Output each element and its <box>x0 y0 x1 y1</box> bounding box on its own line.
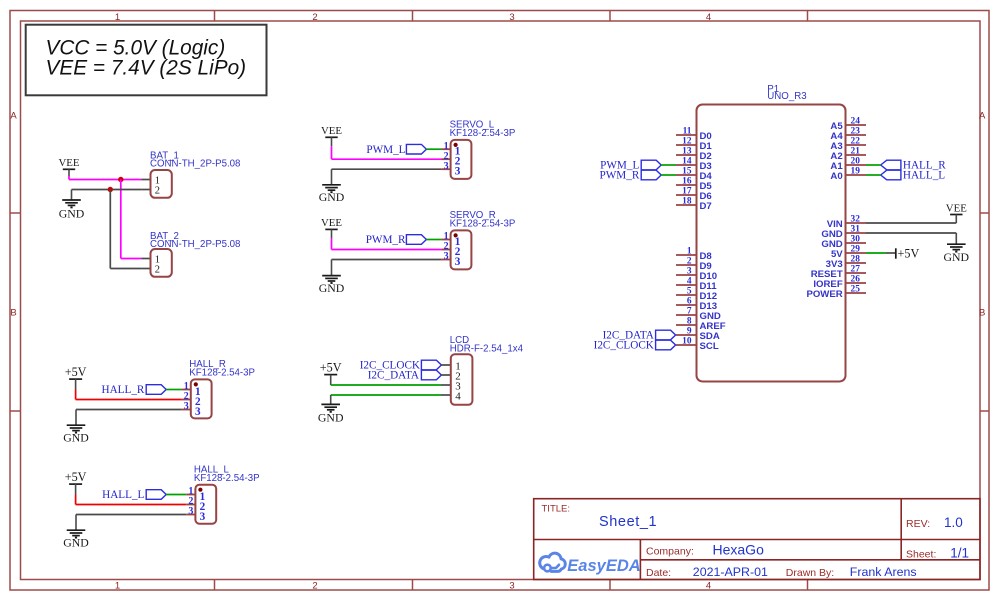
svg-text:GND: GND <box>319 190 345 204</box>
SERVO_R pin numbers <box>444 231 461 268</box>
svg-text:Drawn By:: Drawn By: <box>786 567 834 579</box>
svg-text:24: 24 <box>851 117 861 127</box>
svg-text:1: 1 <box>115 580 120 591</box>
svg-text:12: 12 <box>682 137 692 147</box>
svg-text:D7: D7 <box>700 201 712 212</box>
svg-text:3: 3 <box>455 256 461 268</box>
svg-text:3: 3 <box>200 511 206 523</box>
svg-text:9: 9 <box>687 327 692 337</box>
svg-text:+5V: +5V <box>320 360 342 374</box>
net label I2C_DATA <box>368 370 442 382</box>
svg-text:1/1: 1/1 <box>950 546 969 561</box>
connector BAT_1 CONN-TH_2P-P5.08 <box>141 170 171 198</box>
wire net VEE to BAT_2 pin 1 <box>120 180 122 259</box>
SERVO_L pin numbers <box>444 141 461 178</box>
wire net +5V to HALL_R pin 2 <box>75 390 77 400</box>
svg-text:I2C_CLOCK: I2C_CLOCK <box>594 340 654 352</box>
svg-text:UNO_R3: UNO_R3 <box>767 91 806 102</box>
ic P1 UNO_R3 body <box>697 105 846 382</box>
VEE power flag (battery) <box>59 157 80 169</box>
svg-text:+5V: +5V <box>65 470 87 484</box>
svg-text:3: 3 <box>455 166 461 178</box>
ground (P1 GND) <box>944 233 970 264</box>
wire net GND to HALL_L pin 3 <box>76 514 186 516</box>
ground (LCD) <box>318 395 344 425</box>
svg-text:1: 1 <box>687 247 692 257</box>
svg-text:26: 26 <box>851 275 861 285</box>
P1 left pins D0-D7 <box>676 135 697 205</box>
wire net +5V to P1 pin 29 <box>866 252 886 254</box>
wire net GND to LCD pin 4 <box>331 394 441 396</box>
svg-text:KF128-2.54-3P: KF128-2.54-3P <box>189 368 255 379</box>
svg-text:2: 2 <box>155 186 160 197</box>
svg-text:VEE: VEE <box>946 202 967 214</box>
svg-text:29: 29 <box>851 245 861 255</box>
note: supply voltage annotations <box>26 25 267 96</box>
svg-text:KF128-2.54-3P: KF128-2.54-3P <box>450 128 516 139</box>
svg-text:2: 2 <box>312 12 317 23</box>
wire net GND to BAT_2 pin 2 <box>109 190 111 269</box>
P1 left pin numbers 11-18 <box>682 127 692 207</box>
ground (HALL_R) <box>63 410 89 445</box>
wire net PWM_R to P1 pin 15 <box>661 174 676 176</box>
svg-text:GND: GND <box>59 207 85 221</box>
title block <box>534 499 980 580</box>
svg-text:HALL_L: HALL_L <box>102 489 144 501</box>
wire net +5V to LCD pin 3 <box>331 384 441 386</box>
svg-text:1.0: 1.0 <box>944 515 963 530</box>
svg-text:2: 2 <box>155 265 160 276</box>
P1 right pin numbers 24-19 <box>851 117 861 177</box>
wire net GND to SERVO_R pin 3 <box>332 259 442 261</box>
connector HALL_R KF128-2.54-3P <box>182 379 212 418</box>
svg-text:GND: GND <box>944 250 970 264</box>
net label PWM_R <box>600 170 662 182</box>
HALL_L pin numbers <box>188 486 205 523</box>
svg-text:SCL: SCL <box>700 341 719 352</box>
net label I2C_CLOCK <box>360 360 442 372</box>
net label HALL_R <box>102 384 167 396</box>
svg-text:3: 3 <box>509 12 514 23</box>
net label HALL_L (P1 A0) <box>881 170 946 182</box>
svg-text:TITLE:: TITLE: <box>542 504 571 515</box>
svg-text:KF128-2.54-3P: KF128-2.54-3P <box>450 219 516 230</box>
svg-text:20: 20 <box>851 157 861 167</box>
ground (battery) <box>59 190 85 221</box>
+5V power flag (HALL_L) <box>65 470 87 484</box>
wire net GND to P1 pin 31 <box>866 232 956 234</box>
svg-text:3: 3 <box>444 251 449 262</box>
VEE power flag (SERVO_L) <box>321 125 342 137</box>
wire +5V stub <box>75 379 77 389</box>
P1 pin names A5-A0 <box>830 121 843 182</box>
svg-text:2: 2 <box>312 580 317 591</box>
wire net PWM_L to SERVO_L pin 1 <box>426 148 441 150</box>
P1 right pins VIN-POWER <box>846 223 867 293</box>
svg-text:A: A <box>10 111 17 122</box>
svg-text:HDR-F-2.54_1x4: HDR-F-2.54_1x4 <box>450 343 524 354</box>
svg-text:3: 3 <box>444 161 449 172</box>
svg-text:15: 15 <box>682 167 692 177</box>
svg-text:CONN-TH_2P-P5.08: CONN-TH_2P-P5.08 <box>150 239 240 250</box>
svg-text:Date:: Date: <box>646 567 671 579</box>
wire net VEE to BAT_1 pin 1 <box>68 176 70 180</box>
svg-text:2: 2 <box>687 257 692 267</box>
svg-text:18: 18 <box>682 197 692 207</box>
wire +5V stub <box>75 484 77 494</box>
svg-text:+5V: +5V <box>65 365 87 379</box>
svg-text:4: 4 <box>455 391 461 403</box>
junction GND node <box>108 187 113 192</box>
wire net VEE to SERVO_L pin 2 <box>331 146 333 159</box>
svg-text:VEE = 7.4V (2S LiPo): VEE = 7.4V (2S LiPo) <box>46 56 247 79</box>
net label I2C_CLOCK (P1 SCL) <box>594 340 676 352</box>
svg-text:A0: A0 <box>830 171 842 182</box>
svg-text:GND: GND <box>318 411 344 425</box>
HALL_R pin numbers <box>184 381 201 418</box>
svg-text:HALL_R: HALL_R <box>102 384 145 396</box>
P1 pin names VIN-POWER <box>806 219 843 300</box>
svg-text:25: 25 <box>851 285 861 295</box>
+5V power flag (LCD) <box>320 360 342 374</box>
svg-text:2021-APR-01: 2021-APR-01 <box>693 565 768 579</box>
svg-text:22: 22 <box>851 137 861 147</box>
wire VEE stub <box>68 169 70 176</box>
wire net PWM_L to P1 pin 14 <box>661 164 676 166</box>
wire net VEE to SERVO_R pin 2 <box>331 238 333 249</box>
svg-text:REV:: REV: <box>906 518 930 530</box>
svg-text:+5V: +5V <box>898 246 920 260</box>
connector LCD HDR-F-2.54_1x4 <box>441 354 472 405</box>
wire net HALL_R to HALL_R pin 1 <box>166 389 181 391</box>
P1 pin names D8-SCL <box>700 251 726 352</box>
wire +5V stub <box>330 375 332 385</box>
net label I2C_DATA (P1 SDA) <box>603 330 676 342</box>
svg-text:1: 1 <box>115 12 120 23</box>
connector SERVO_R KF128-2.54-3P <box>441 230 471 269</box>
svg-text:6: 6 <box>687 297 692 307</box>
P1 right pin numbers 32-25 <box>851 215 861 295</box>
svg-text:28: 28 <box>851 255 861 265</box>
wire net GND to HALL_R pin 3 <box>76 409 182 411</box>
connector BAT_2 CONN-TH_2P-P5.08 <box>141 249 171 277</box>
svg-text:GND: GND <box>319 281 345 295</box>
ground (HALL_L) <box>63 515 89 550</box>
svg-text:13: 13 <box>682 147 692 157</box>
wire net HALL_L to P1 pin 19 <box>866 174 881 176</box>
ground (SERVO_R) <box>319 260 345 295</box>
VEE power flag (SERVO_R) <box>321 217 342 229</box>
wire VEE stub <box>955 215 957 224</box>
svg-text:8: 8 <box>687 317 692 327</box>
LCD pin numbers <box>455 361 461 403</box>
svg-text:4: 4 <box>687 277 692 287</box>
wire VEE stub <box>331 137 333 146</box>
svg-text:3: 3 <box>509 580 514 591</box>
svg-text:B: B <box>10 308 16 319</box>
svg-text:31: 31 <box>851 225 861 235</box>
P1 pin names D0-D7 <box>700 131 713 212</box>
svg-text:3: 3 <box>687 267 692 277</box>
svg-text:GND: GND <box>63 535 89 549</box>
BAT_2 pin numbers <box>155 255 160 276</box>
P1 left pins D8-SCL <box>676 255 697 345</box>
svg-text:Sheet:: Sheet: <box>906 549 936 561</box>
+5V power flag (HALL_R) <box>65 365 87 379</box>
svg-text:VEE: VEE <box>59 157 80 169</box>
BAT_1 pin numbers <box>155 176 160 197</box>
svg-text:21: 21 <box>851 147 861 157</box>
svg-text:CONN-TH_2P-P5.08: CONN-TH_2P-P5.08 <box>150 159 240 170</box>
wire net GND to BAT_1 pin 2 <box>72 189 142 191</box>
VEE power flag (P1 VIN) <box>946 202 967 214</box>
svg-text:11: 11 <box>683 127 692 137</box>
svg-text:POWER: POWER <box>806 289 842 300</box>
svg-text:PWM_R: PWM_R <box>366 234 406 246</box>
P1 right pins A5-A0 <box>846 125 867 175</box>
net label HALL_L <box>102 489 166 501</box>
svg-text:3: 3 <box>195 406 201 418</box>
svg-text:23: 23 <box>851 127 861 137</box>
svg-text:3: 3 <box>188 506 193 517</box>
svg-text:A: A <box>979 111 986 122</box>
wire net HALL_L to HALL_L pin 1 <box>166 494 186 496</box>
svg-text:PWM_R: PWM_R <box>600 170 640 182</box>
P1 left pin numbers 1-10 <box>682 247 692 347</box>
svg-text:EasyEDA: EasyEDA <box>567 557 640 575</box>
svg-text:VEE: VEE <box>321 217 342 229</box>
svg-text:10: 10 <box>682 337 692 347</box>
junction VEE node <box>118 177 123 182</box>
wire net HALL_R to P1 pin 20 <box>866 164 881 166</box>
+5V power flag (P1 5V) <box>886 246 919 260</box>
svg-text:30: 30 <box>851 235 861 245</box>
svg-text:HexaGo: HexaGo <box>713 542 765 558</box>
net label PWM_L <box>366 144 426 156</box>
wire net GND to SERVO_L pin 3 <box>332 168 442 170</box>
connector SERVO_L KF128-2.54-3P <box>441 140 471 179</box>
svg-text:B: B <box>979 308 985 319</box>
svg-text:17: 17 <box>682 187 692 197</box>
svg-text:5: 5 <box>687 287 692 297</box>
svg-text:GND: GND <box>63 430 89 444</box>
svg-text:14: 14 <box>682 157 692 167</box>
svg-text:Sheet_1: Sheet_1 <box>599 514 657 530</box>
svg-text:Company:: Company: <box>646 546 694 558</box>
wire net +5V to HALL_L pin 2 <box>75 495 77 505</box>
EasyEDA logo <box>540 553 641 575</box>
net label PWM_R <box>366 234 427 246</box>
svg-text:KF128-2.54-3P: KF128-2.54-3P <box>194 473 260 484</box>
ground (SERVO_L) <box>319 169 345 204</box>
svg-text:VEE: VEE <box>321 125 342 137</box>
svg-text:27: 27 <box>851 265 861 275</box>
svg-text:32: 32 <box>851 215 861 225</box>
connector HALL_L KF128-2.54-3P <box>186 485 216 524</box>
net label HALL_R (P1 A1) <box>881 160 947 172</box>
svg-text:19: 19 <box>851 167 861 177</box>
wire net PWM_R to SERVO_R pin 1 <box>426 239 441 241</box>
wire VEE stub <box>331 229 333 238</box>
net label PWM_L <box>600 160 661 172</box>
svg-text:7: 7 <box>687 307 692 317</box>
svg-text:Frank Arens: Frank Arens <box>850 565 917 579</box>
svg-text:I2C_DATA: I2C_DATA <box>368 370 419 382</box>
svg-text:16: 16 <box>682 177 692 187</box>
wire net VEE to P1 pin 32 <box>866 222 956 224</box>
svg-text:3: 3 <box>184 401 189 412</box>
svg-text:4: 4 <box>706 12 711 23</box>
svg-text:PWM_L: PWM_L <box>366 144 405 156</box>
svg-text:HALL_L: HALL_L <box>903 170 945 182</box>
svg-text:4: 4 <box>706 580 711 591</box>
